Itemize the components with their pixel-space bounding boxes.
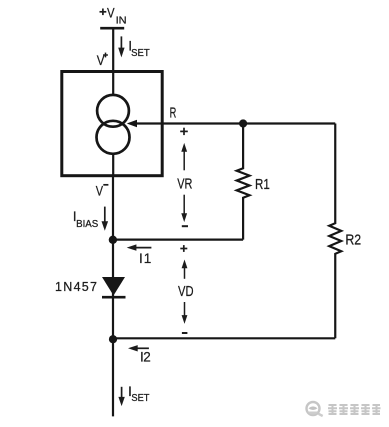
arrow VD down [182,302,188,324]
wire: lower circle to box bottom [112,153,114,176]
diode D1 1N457 triangle [102,277,125,296]
wire: +VIN bar to box top [112,28,114,73]
wire: node I1 to diode to node I2 [112,240,114,339]
svg-text:I1: I1 [139,251,151,266]
current source upper circle [97,95,129,127]
watermark text strokes [328,405,381,414]
svg-text:V: V [96,183,104,199]
wire R: horizontal from circles to R2 branch [134,122,335,124]
resistor R2 [329,124,341,339]
wire: node I2 to bottom [112,339,114,416]
annotation VR minus [182,225,188,227]
svg-text:R2: R2 [345,231,361,248]
arrow IBIAS (pointing down) [102,207,109,231]
+VIN terminal bar [100,27,124,30]
annotation VD minus [182,332,188,334]
node junction dot R wire / R1 [239,119,247,127]
svg-text:V: V [97,52,105,68]
wire I1: node to R1 bottom [113,239,243,241]
wire: box bottom to node I1 [112,176,114,240]
node +VIN label [100,9,107,16]
svg-text:IN: IN [116,15,127,26]
annotation VR plus [180,128,188,135]
resistor R1 [237,124,250,240]
arrow VR up [181,143,187,170]
arrow ISET (bottom, pointing down) [118,387,124,406]
svg-text:V: V [107,4,115,20]
svg-text:R: R [170,105,177,122]
svg-text:SET: SET [131,48,150,59]
arrowhead into current source (R pin) [127,120,137,127]
svg-text:I2: I2 [140,350,151,365]
arrow VD up [182,260,188,279]
svg-text:1N457: 1N457 [55,280,97,294]
svg-text:SET: SET [131,393,149,404]
current source lower circle [97,121,130,154]
op-amp U1 current-source box [62,72,162,176]
svg-text:R1: R1 [255,176,270,193]
svg-text:BIAS: BIAS [76,219,99,230]
annotation VD plus [180,245,187,252]
node I2 junction dot [109,335,117,343]
arrow VR down [181,195,187,222]
wire: box top to upper circle [112,73,114,96]
watermark logo icon [307,402,323,416]
arrow I1 (pointing left) [127,244,152,250]
svg-text:VR: VR [177,176,192,193]
node I1 junction dot [109,236,117,244]
arrow ISET (top, pointing down) [118,36,124,57]
arrow I2 (pointing left) [128,345,149,351]
svg-text:VD: VD [178,283,194,300]
wire I2: node to R2 bottom [113,337,335,339]
diode D1 cathode bar [102,296,126,299]
